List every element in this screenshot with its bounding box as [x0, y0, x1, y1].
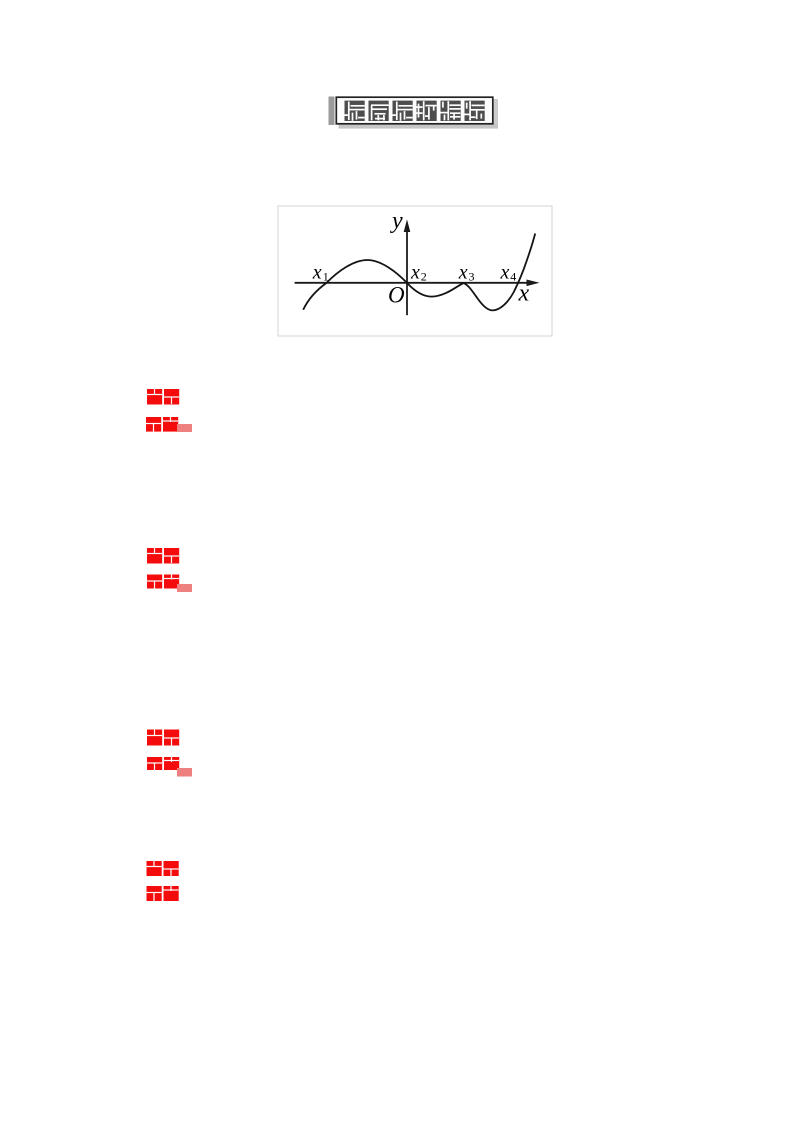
svg-text:x: x [410, 262, 420, 284]
char 3 [393, 101, 413, 121]
red marker group 3 : pink dash [177, 768, 192, 777]
x-axis [295, 282, 529, 284]
svg-text:1: 1 [323, 269, 329, 283]
svg-text:2: 2 [421, 269, 427, 283]
red marker group 2 : pink dash [177, 584, 192, 592]
red marker group 1 : 解析 row [146, 417, 178, 432]
title banner box border [336, 97, 493, 124]
svg-text:y: y [390, 208, 403, 234]
y-axis [406, 231, 408, 316]
svg-text:O: O [388, 283, 405, 308]
x-axis arrowhead [527, 280, 540, 287]
char 6 [465, 101, 485, 121]
red marker group 2 : 答案 row [147, 548, 179, 564]
char 5 [441, 101, 461, 121]
svg-text:x: x [312, 262, 322, 284]
char 4 [417, 101, 437, 121]
svg-text:x: x [500, 262, 510, 284]
y-axis arrowhead [404, 219, 411, 232]
title banner patch background [328, 94, 504, 134]
curve y=f(x) [303, 234, 535, 311]
red marker group 1 : pink dash [177, 424, 192, 432]
red marker group 4 : 答案 row [147, 861, 179, 876]
char 2 [369, 101, 389, 121]
red marker group 3 : 答案 row [147, 730, 179, 746]
red marker group 1 : 答案 row [147, 389, 179, 405]
graph figure patch [278, 206, 552, 336]
red marker group 3 : 解析 row [147, 757, 179, 770]
svg-text:3: 3 [469, 269, 475, 283]
svg-text:x: x [458, 262, 468, 284]
svg-text:x: x [518, 281, 530, 307]
char 1 [345, 101, 365, 121]
title banner right shadow [493, 99, 498, 124]
svg-text:4: 4 [510, 269, 516, 283]
red marker group 2 : 解析 row [147, 575, 179, 589]
title banner bottom shadow [339, 124, 499, 129]
red marker group 4 : 解析 row [147, 886, 179, 901]
title banner left gray edge [329, 97, 335, 126]
title text 课后课时精练 (dense glyph blocks) [345, 101, 485, 121]
